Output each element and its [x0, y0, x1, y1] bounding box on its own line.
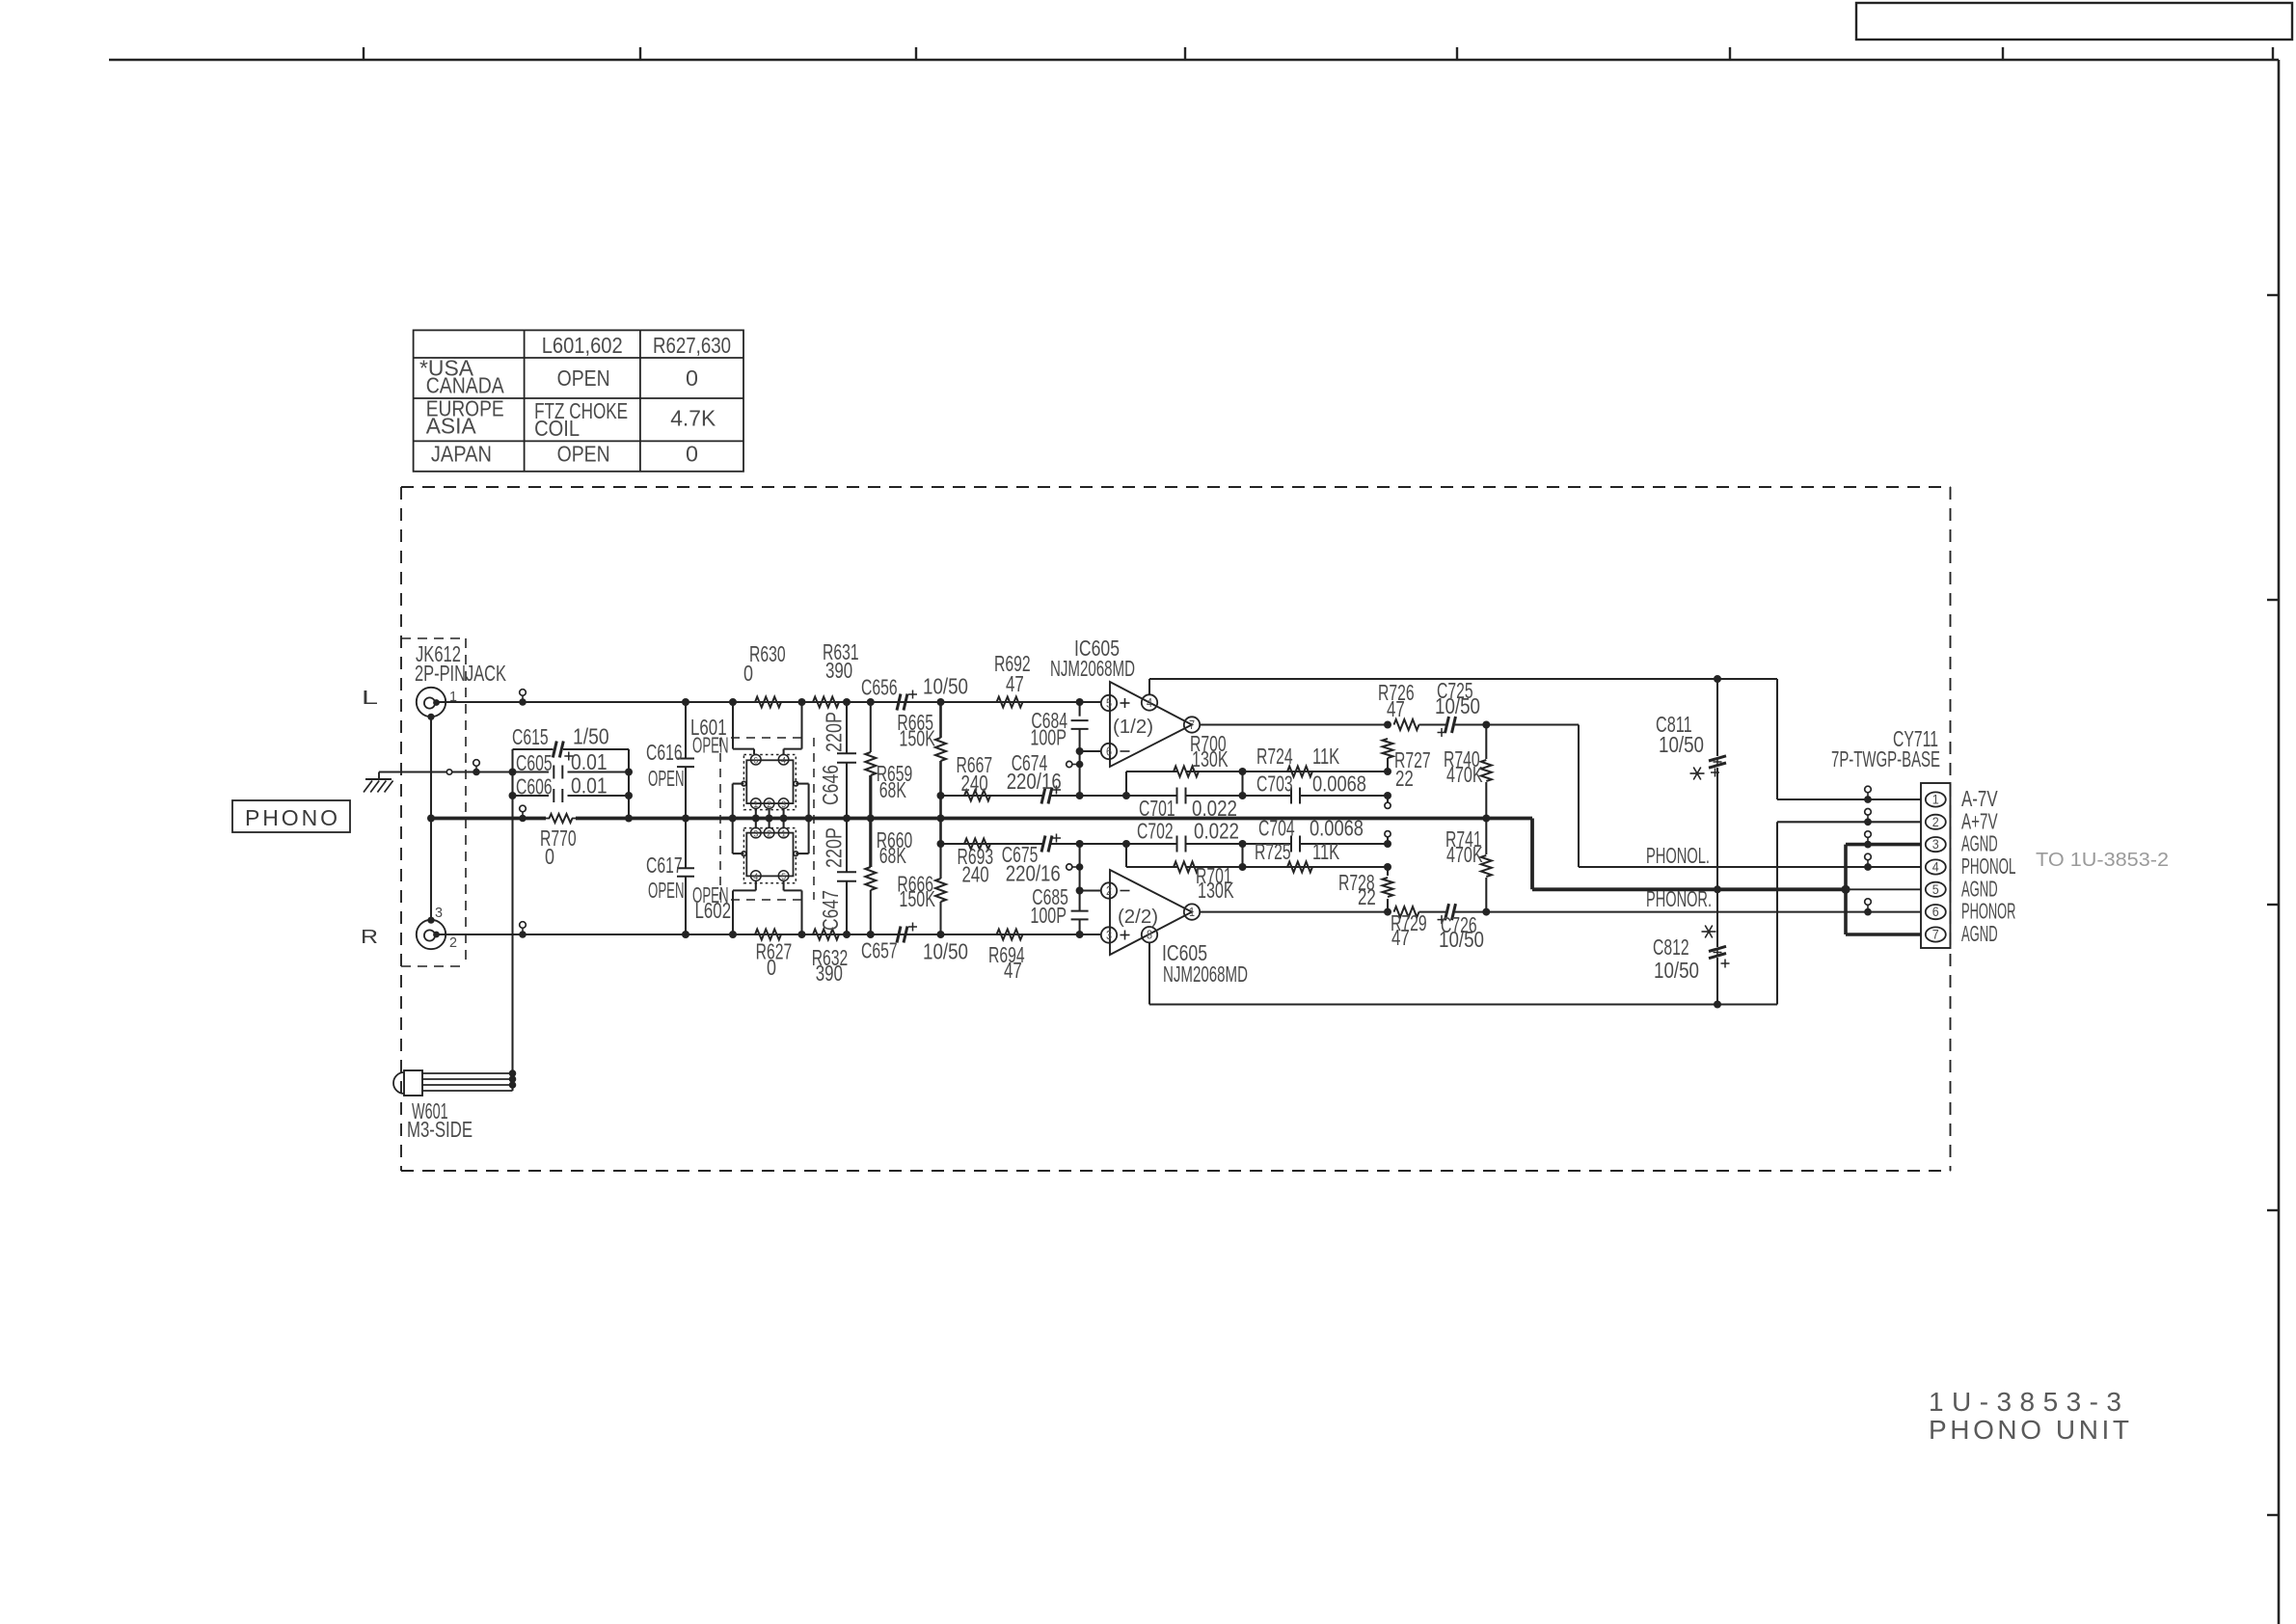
wire R700 row	[1126, 771, 1388, 796]
junction C702 right	[1239, 840, 1247, 848]
resistor R630	[743, 641, 786, 708]
junction R666 rail	[937, 931, 945, 938]
wire AGND bracket	[1846, 845, 1921, 934]
svg-text:2: 2	[767, 799, 771, 809]
resistor R726	[1378, 680, 1419, 730]
open stub below C703	[1385, 796, 1391, 808]
svg-text:1: 1	[1189, 905, 1195, 919]
wire C-block left vertical	[509, 749, 517, 799]
capacitor C703	[1256, 771, 1366, 804]
junction C725 R740	[1482, 721, 1490, 729]
inductor L601	[742, 754, 797, 809]
svg-text:10/50: 10/50	[1654, 958, 1699, 983]
wire opamp1 output	[1200, 723, 1388, 725]
label PHONOL pin 4	[1961, 853, 2015, 879]
capacitor C684	[1030, 702, 1088, 796]
wire C-block right vertical	[625, 749, 633, 819]
pin 3 label jack R	[435, 905, 443, 921]
svg-text:1U-3853-3: 1U-3853-3	[1929, 1387, 2121, 1417]
svg-text:10/50: 10/50	[923, 674, 968, 699]
label 1U-3853-3	[1929, 1387, 2121, 1417]
wire L601 shield taps	[733, 784, 809, 819]
wire L input rail	[437, 701, 1102, 703]
wire L602 left lead	[733, 880, 756, 934]
svg-text:L: L	[362, 688, 378, 709]
table row USA values	[557, 365, 698, 391]
capacitor C674	[1007, 750, 1062, 804]
resistor R666	[897, 844, 946, 934]
capacitor C725	[1419, 678, 1487, 737]
svg-text:0: 0	[686, 441, 698, 466]
svg-text:4: 4	[1932, 859, 1939, 875]
label AGND pin 3	[1961, 831, 1998, 856]
svg-text:PHONOR: PHONOR	[1961, 899, 2015, 924]
svg-text:220/16: 220/16	[1007, 769, 1062, 794]
capacitor C647	[818, 819, 856, 935]
sheet border tick marks right	[2267, 295, 2279, 1515]
svg-text:OPEN: OPEN	[557, 441, 610, 466]
junction R659 rail	[867, 698, 875, 706]
label IC605 lower	[1162, 940, 1248, 987]
svg-text:0: 0	[767, 955, 776, 980]
svg-text:0: 0	[545, 844, 554, 869]
title box top right	[1856, 3, 2292, 40]
label CY711	[1831, 726, 1940, 771]
test point stub connector	[1864, 831, 1872, 849]
test point stub L rail	[519, 690, 527, 706]
svg-text:5: 5	[781, 872, 786, 881]
resistor R631	[813, 639, 859, 708]
node L	[362, 688, 378, 709]
svg-text:6: 6	[1106, 744, 1112, 759]
table row EUROPE values	[534, 398, 716, 441]
svg-text:68K: 68K	[879, 843, 906, 868]
svg-text:240: 240	[961, 771, 988, 796]
junction R694 C685	[1076, 931, 1084, 938]
junction C684 C701 row	[1076, 792, 1084, 799]
label AGND pin 7	[1961, 921, 1998, 946]
wire L601 left lead	[733, 702, 754, 754]
svg-text:6: 6	[753, 756, 758, 766]
open stub above C704	[1385, 831, 1391, 844]
wire pin6 link	[1076, 747, 1101, 755]
label A+7V pin 2	[1961, 808, 1998, 833]
resistor R692	[994, 651, 1031, 708]
svg-text:C703: C703	[1256, 771, 1293, 797]
junction C646 bus	[843, 815, 851, 823]
pin 1 CY711	[1926, 792, 1946, 807]
asterisk C812	[1702, 926, 1716, 938]
test point stub bus	[519, 805, 527, 822]
resistor R659	[865, 702, 912, 819]
connector JK612 dashed box	[401, 638, 466, 966]
svg-text:C657: C657	[861, 937, 898, 962]
junction R725 right	[1384, 863, 1391, 871]
svg-text:22: 22	[1395, 766, 1414, 791]
svg-text:3: 3	[435, 905, 443, 921]
svg-text:1/50: 1/50	[573, 724, 609, 749]
svg-text:(1/2): (1/2)	[1113, 717, 1153, 738]
svg-text:(2/2): (2/2)	[1118, 907, 1158, 928]
resistor R701	[1174, 862, 1234, 904]
wire pin4 up	[1148, 679, 1150, 694]
svg-text:4: 4	[753, 872, 758, 881]
label TO 1U-3853-2	[2036, 850, 2169, 871]
svg-text:7P-TWGP-BASE: 7P-TWGP-BASE	[1831, 746, 1940, 771]
junction C617 rail	[682, 931, 689, 938]
svg-text:220/16: 220/16	[1006, 861, 1061, 886]
svg-text:OPEN: OPEN	[692, 733, 729, 758]
junction R700 R724	[1239, 768, 1247, 796]
svg-text:C647: C647	[818, 890, 843, 931]
svg-text:C605: C605	[516, 750, 553, 775]
svg-text:R724: R724	[1256, 744, 1293, 769]
junction R665 bus	[937, 815, 945, 823]
label PHONOR.	[1646, 886, 1712, 911]
svg-text:1: 1	[1932, 792, 1939, 807]
svg-text:C646: C646	[818, 765, 843, 805]
test point stub ground row	[473, 760, 480, 776]
wire ground row	[379, 771, 513, 772]
junction C-block bus	[625, 815, 633, 823]
svg-text:OPEN: OPEN	[648, 878, 685, 903]
svg-text:7: 7	[1932, 927, 1939, 942]
svg-text:470K: 470K	[1446, 762, 1483, 787]
connector JK612 label	[415, 641, 506, 686]
wire PHONOL branch	[1486, 725, 1921, 868]
test point stub opamp2	[1067, 863, 1084, 871]
svg-text:1: 1	[753, 799, 758, 809]
svg-text:240: 240	[962, 862, 989, 887]
svg-text:1: 1	[781, 828, 786, 838]
svg-text:0.022: 0.022	[1194, 819, 1239, 844]
capacitor C605	[513, 749, 630, 779]
junction R660 rail	[867, 931, 875, 938]
svg-text:100P: 100P	[1030, 903, 1067, 928]
jack R	[417, 917, 446, 950]
svg-text:0.0068: 0.0068	[1310, 816, 1364, 841]
op-amp IC605 1/2	[1101, 682, 1200, 767]
junction shield tap left	[729, 815, 737, 823]
svg-text:0: 0	[743, 661, 753, 686]
wire R701 row	[1126, 844, 1388, 867]
capacitor C617	[646, 819, 694, 935]
junction R659 bus	[867, 815, 875, 823]
junction C616 bus	[682, 815, 689, 823]
svg-text:PHONOL: PHONOL	[1961, 853, 2015, 879]
capacitor C702	[1137, 819, 1239, 853]
label IC605 upper	[1050, 636, 1135, 681]
resistor R725	[1255, 839, 1339, 873]
sheet top border line	[109, 59, 2279, 62]
svg-text:220P: 220P	[822, 712, 847, 752]
test point stub R rail	[519, 922, 527, 938]
test point stub connector	[1864, 786, 1872, 803]
capacitor C685	[1030, 844, 1088, 934]
wire AGND corner to pin5	[1532, 819, 1921, 890]
label PHONOR pin 6	[1961, 899, 2015, 924]
connector CY711 body	[1921, 783, 1951, 948]
wire W601 drop	[511, 772, 513, 1092]
capacitor C616	[646, 702, 694, 819]
test point stub connector	[1864, 853, 1872, 871]
svg-text:NJM2068MD: NJM2068MD	[1163, 961, 1248, 987]
svg-text:220P: 220P	[822, 827, 847, 868]
junction C675 right	[1076, 840, 1084, 848]
capacitor C656	[861, 674, 968, 711]
junction R665 C701 row	[937, 792, 945, 799]
junction C704 right	[1384, 840, 1391, 848]
table row JAPAN values	[557, 441, 698, 466]
wire opamp2 output	[1200, 911, 1388, 913]
svg-text:470K: 470K	[1446, 842, 1483, 867]
wire A-7V corner	[1777, 679, 1921, 799]
inductor L602	[742, 827, 797, 882]
junction L602 left rail	[729, 931, 737, 938]
resistor R694	[988, 930, 1025, 984]
label PHONOL.	[1646, 843, 1710, 868]
svg-text:OPEN: OPEN	[648, 766, 685, 791]
svg-text:390: 390	[816, 961, 843, 986]
svg-text:47: 47	[1004, 958, 1022, 983]
wire R input rail	[437, 934, 1102, 935]
resistor R693	[958, 839, 994, 887]
wire A+7V corner	[1777, 822, 1921, 1004]
wire L602 shield taps	[733, 819, 809, 854]
svg-text:4: 4	[781, 756, 786, 766]
svg-text:150K: 150K	[899, 726, 935, 751]
svg-text:C615: C615	[512, 724, 549, 749]
wire L602 right lead	[784, 880, 802, 934]
table header L601,602	[542, 333, 623, 358]
svg-text:22: 22	[1358, 884, 1376, 909]
capacitor C701	[1139, 788, 1237, 822]
svg-text:A-7V: A-7V	[1961, 786, 1998, 811]
svg-text:3: 3	[781, 799, 786, 809]
svg-text:AGND: AGND	[1961, 831, 1998, 856]
svg-text:AGND: AGND	[1961, 921, 1998, 946]
svg-text:130K: 130K	[1198, 878, 1234, 903]
wire pin2 link	[1076, 887, 1101, 895]
svg-text:C702: C702	[1137, 819, 1174, 844]
wire PHONOR branch	[1486, 911, 1921, 913]
table row USA CANADA	[419, 355, 504, 397]
resistor R724	[1256, 744, 1339, 777]
svg-text:TO 1U-3853-2: TO 1U-3853-2	[2036, 850, 2169, 871]
svg-text:C701: C701	[1139, 796, 1175, 821]
resistor R741	[1445, 819, 1492, 912]
junction R741 output	[1482, 908, 1490, 916]
svg-text:150K: 150K	[899, 886, 935, 911]
wire L601 secondary pins to bus	[752, 808, 788, 827]
resistor R700	[1174, 731, 1229, 777]
junction ground row W601	[509, 769, 517, 776]
label L601 OPEN	[690, 715, 729, 758]
resistor R660	[865, 819, 912, 935]
junction R665 C702 row	[937, 840, 945, 848]
resistor R667	[957, 752, 993, 801]
junction C811 top	[1714, 675, 1721, 683]
svg-text:PHONOL.: PHONOL.	[1646, 843, 1710, 868]
svg-text:R627,630: R627,630	[653, 333, 731, 358]
label PHONO UNIT	[1929, 1415, 2129, 1445]
svg-text:PHONO: PHONO	[245, 805, 338, 830]
junction C703 right	[1384, 792, 1391, 799]
junction shield tap right	[805, 815, 813, 823]
svg-text:10/50: 10/50	[1659, 732, 1704, 757]
asterisk C811	[1690, 768, 1705, 780]
svg-text:4: 4	[1147, 695, 1152, 710]
junction C701 left	[1122, 792, 1130, 799]
junction C701 right	[1239, 792, 1247, 799]
svg-text:0.0068: 0.0068	[1312, 771, 1366, 797]
pin 5 CY711	[1926, 881, 1946, 897]
label AGND pin 5	[1961, 876, 1998, 901]
capacitor C811	[1656, 679, 1726, 889]
test point stub connector	[1864, 899, 1872, 916]
svg-text:R725: R725	[1255, 839, 1291, 864]
sheet right border line	[2278, 60, 2281, 1624]
wire V- rail	[1149, 678, 1777, 680]
resistor R665	[897, 702, 946, 796]
wire R665 to bus	[939, 796, 942, 844]
junction R701 R725	[1239, 844, 1247, 871]
svg-text:C656: C656	[861, 675, 898, 700]
svg-text:390: 390	[825, 658, 852, 683]
wire C701 row	[941, 795, 1389, 797]
op-amp IC605 2/2	[1101, 870, 1200, 955]
svg-text:NJM2068MD: NJM2068MD	[1050, 656, 1135, 681]
svg-text:3: 3	[753, 828, 758, 838]
svg-text:2: 2	[767, 828, 771, 838]
svg-text:C812: C812	[1653, 934, 1689, 960]
svg-text:68K: 68K	[879, 777, 906, 802]
pin 7 CY711	[1926, 927, 1946, 942]
svg-text:10/50: 10/50	[1435, 693, 1480, 718]
PHONO input label box	[232, 800, 350, 832]
svg-text:R630: R630	[749, 641, 786, 666]
inductor L601 shield dashed	[720, 738, 814, 900]
svg-text:COIL: COIL	[534, 416, 580, 441]
wire C702 row	[941, 843, 1389, 845]
capacitor C615	[512, 724, 629, 761]
junction output R726	[1384, 721, 1391, 729]
junction R665 rail	[937, 698, 945, 706]
ground	[364, 772, 393, 793]
svg-text:L602: L602	[695, 898, 732, 923]
svg-text:6: 6	[1932, 904, 1939, 919]
version table	[414, 330, 743, 471]
resistor R627	[755, 930, 792, 981]
svg-text:47: 47	[1006, 671, 1024, 696]
svg-text:JAPAN: JAPAN	[431, 441, 492, 466]
label A-7V pin 1	[1961, 786, 1998, 811]
svg-text:AGND: AGND	[1961, 876, 1998, 901]
node R	[361, 927, 378, 948]
capacitor C726	[1419, 904, 1487, 952]
svg-text:7: 7	[1189, 717, 1195, 732]
svg-text:10/50: 10/50	[1439, 927, 1484, 952]
resistor R770	[540, 814, 577, 869]
junction R632 C647	[843, 931, 851, 938]
svg-text:CANADA: CANADA	[426, 373, 504, 398]
junction jack ground bus	[427, 815, 435, 823]
svg-text:3: 3	[1106, 928, 1112, 942]
svg-text:4.7K: 4.7K	[670, 406, 716, 431]
junction R740 bus	[1482, 815, 1490, 823]
junction L601 left rail	[729, 698, 737, 706]
resistor R729	[1391, 907, 1427, 950]
svg-text:2: 2	[1932, 814, 1939, 829]
wire pin8 down	[1148, 942, 1150, 1004]
junction R631 C646	[843, 698, 851, 706]
capacitor C657	[861, 923, 968, 964]
svg-text:2: 2	[449, 934, 457, 951]
svg-text:0: 0	[686, 365, 698, 391]
svg-text:47: 47	[1391, 925, 1410, 950]
pin 2 label jack R	[449, 934, 457, 951]
test point stub opamp1	[1067, 761, 1084, 769]
svg-text:10/50: 10/50	[923, 938, 968, 963]
svg-text:C606: C606	[516, 774, 553, 799]
table row EUROPE ASIA	[426, 395, 504, 438]
resistor R740	[1444, 725, 1492, 819]
svg-text:0.01: 0.01	[571, 773, 608, 798]
svg-text:A+7V: A+7V	[1961, 808, 1998, 833]
wire V+ rail	[1149, 1003, 1777, 1005]
wire AGND bus	[431, 817, 1532, 821]
junction AGND C811	[1714, 885, 1721, 893]
pin 3 CY711	[1926, 836, 1946, 852]
junction L602 right rail	[798, 931, 806, 938]
svg-text:C704: C704	[1258, 816, 1295, 841]
junction R724 right	[1384, 768, 1391, 775]
svg-text:0.022: 0.022	[1192, 796, 1237, 821]
pin 1 label jack L	[449, 689, 457, 705]
junction R728 output	[1384, 908, 1391, 916]
label W601	[407, 1098, 473, 1142]
pin 6 CY711	[1926, 904, 1946, 919]
resistor R632	[812, 930, 849, 987]
sheet border tick marks top	[364, 47, 2273, 60]
svg-text:OPEN: OPEN	[557, 365, 610, 391]
pin 4 CY711	[1926, 859, 1946, 875]
wire jack ground link	[430, 717, 432, 920]
wire R692 rail segment	[1076, 698, 1084, 706]
svg-text:2P-PINJACK: 2P-PINJACK	[415, 661, 506, 686]
svg-text:11K: 11K	[1312, 839, 1339, 864]
svg-text:8: 8	[1147, 928, 1152, 942]
capacitor C606	[513, 773, 630, 803]
svg-text:100P: 100P	[1030, 725, 1067, 750]
capacitor C675	[1002, 834, 1061, 886]
jack L	[417, 688, 446, 720]
svg-text:R: R	[361, 927, 378, 948]
wire L601 right lead	[784, 702, 802, 754]
svg-text:2: 2	[1106, 883, 1112, 898]
svg-text:5: 5	[1106, 696, 1112, 711]
svg-text:47: 47	[1387, 696, 1405, 721]
pin 2 CY711	[1926, 814, 1946, 829]
dashed board outline 1U-3853-3	[401, 487, 1951, 1171]
svg-text:5: 5	[1932, 881, 1939, 897]
resistor R728	[1338, 867, 1393, 912]
svg-text:C617: C617	[646, 853, 683, 878]
cable W601 M3-SIDE	[393, 1069, 516, 1096]
svg-text:3: 3	[1932, 836, 1939, 852]
junction L601 right rail	[798, 698, 806, 706]
junction C812 bottom	[1714, 1001, 1721, 1009]
